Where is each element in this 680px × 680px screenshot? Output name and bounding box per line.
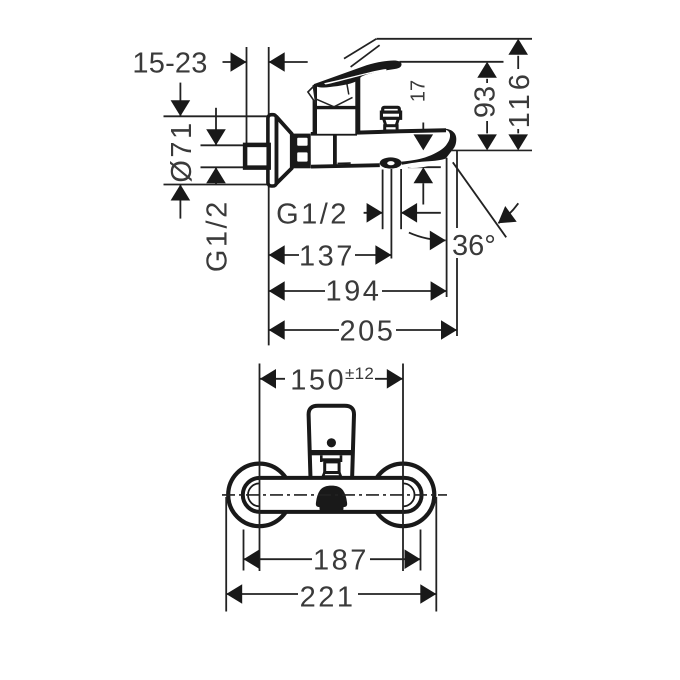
- svg-text:187: 187: [313, 545, 369, 577]
- svg-text:150: 150: [290, 364, 346, 396]
- svg-text:221: 221: [300, 582, 356, 614]
- svg-text:194: 194: [326, 276, 382, 308]
- svg-text:G1/2: G1/2: [276, 198, 349, 230]
- svg-text:±12: ±12: [345, 364, 374, 383]
- svg-text:93: 93: [470, 86, 502, 118]
- svg-text:116: 116: [504, 70, 536, 128]
- svg-text:G1/2: G1/2: [202, 199, 234, 272]
- svg-text:17: 17: [408, 80, 430, 102]
- svg-text:15-23: 15-23: [132, 48, 207, 80]
- svg-text:36°: 36°: [452, 230, 496, 262]
- svg-text:137: 137: [299, 241, 355, 273]
- svg-text:205: 205: [340, 316, 396, 348]
- svg-text:Ø71: Ø71: [166, 120, 198, 182]
